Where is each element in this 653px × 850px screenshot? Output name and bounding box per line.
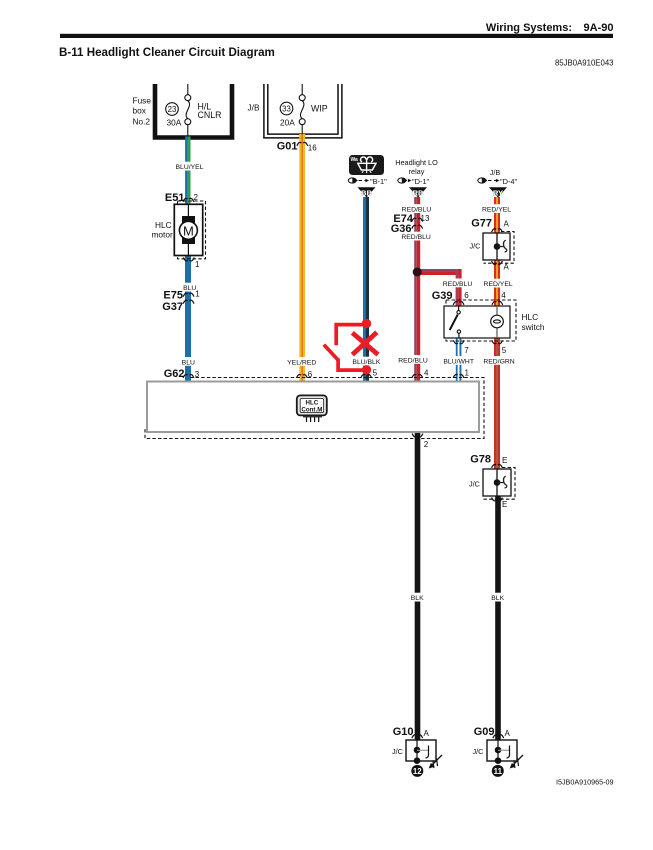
svg-text:BLK: BLK bbox=[491, 595, 504, 602]
svg-text:BLU/WHT: BLU/WHT bbox=[443, 358, 474, 365]
svg-text:"D-4": "D-4" bbox=[500, 177, 518, 186]
svg-text:6: 6 bbox=[308, 370, 313, 379]
svg-text:20A: 20A bbox=[280, 118, 295, 128]
svg-text:33: 33 bbox=[282, 104, 291, 113]
svg-text:J/C: J/C bbox=[469, 479, 480, 488]
svg-text:RED/BLU: RED/BLU bbox=[398, 357, 428, 364]
svg-text:relay: relay bbox=[409, 167, 425, 176]
svg-text:G77: G77 bbox=[471, 217, 492, 229]
svg-text:3: 3 bbox=[195, 370, 200, 379]
svg-text:4: 4 bbox=[424, 368, 429, 377]
svg-text:9A-90: 9A-90 bbox=[584, 22, 614, 34]
svg-text:G09: G09 bbox=[474, 726, 495, 738]
svg-text:WIP: WIP bbox=[311, 104, 328, 114]
svg-text:7: 7 bbox=[464, 346, 469, 355]
svg-text:16: 16 bbox=[308, 144, 317, 153]
svg-text:A: A bbox=[505, 729, 511, 738]
svg-text:A: A bbox=[504, 262, 510, 271]
svg-text:1: 1 bbox=[465, 368, 470, 377]
svg-text:BLU/BLK: BLU/BLK bbox=[352, 359, 380, 366]
svg-text:Wiring Systems:: Wiring Systems: bbox=[486, 22, 572, 34]
svg-text:30A: 30A bbox=[167, 118, 182, 128]
svg-text:BLU/YEL: BLU/YEL bbox=[176, 164, 204, 171]
svg-text:12: 12 bbox=[413, 767, 422, 776]
svg-text:HLC: HLC bbox=[155, 220, 172, 230]
svg-text:E51: E51 bbox=[165, 192, 185, 204]
svg-text:1: 1 bbox=[195, 289, 200, 298]
svg-text:RED/YEL: RED/YEL bbox=[484, 281, 513, 288]
svg-text:J/C: J/C bbox=[473, 747, 484, 756]
svg-text:E75: E75 bbox=[163, 290, 183, 302]
svg-text:RY: RY bbox=[493, 189, 503, 198]
svg-text:BLK: BLK bbox=[411, 595, 424, 602]
svg-text:BLU: BLU bbox=[182, 359, 195, 366]
svg-text:BB: BB bbox=[361, 189, 372, 198]
svg-text:5: 5 bbox=[502, 346, 507, 355]
svg-text:1: 1 bbox=[195, 260, 200, 269]
svg-text:Wa: Wa bbox=[351, 157, 359, 163]
svg-text:G78: G78 bbox=[470, 453, 491, 465]
svg-text:G01: G01 bbox=[277, 141, 298, 153]
svg-text:4: 4 bbox=[501, 291, 506, 300]
svg-text:6: 6 bbox=[464, 291, 469, 300]
svg-text:G36: G36 bbox=[391, 223, 412, 235]
svg-text:Cont.M: Cont.M bbox=[301, 406, 322, 413]
svg-text:HLC: HLC bbox=[522, 312, 539, 322]
svg-text:2: 2 bbox=[424, 440, 429, 449]
svg-text:YEL/RED: YEL/RED bbox=[287, 359, 316, 366]
svg-text:RED/GRN: RED/GRN bbox=[483, 358, 514, 365]
svg-text:13: 13 bbox=[421, 214, 430, 223]
svg-text:Fuse: Fuse bbox=[133, 96, 152, 106]
svg-text:J/C: J/C bbox=[470, 242, 481, 251]
svg-text:box: box bbox=[133, 106, 147, 116]
svg-text:J/C: J/C bbox=[392, 747, 403, 756]
svg-text:E: E bbox=[502, 456, 507, 465]
svg-text:A: A bbox=[504, 219, 510, 228]
svg-text:"D-1": "D-1" bbox=[412, 177, 430, 186]
svg-text:G10: G10 bbox=[393, 726, 414, 738]
svg-text:B-11 Headlight Cleaner Circuit: B-11 Headlight Cleaner Circuit Diagram bbox=[59, 46, 275, 59]
svg-text:11: 11 bbox=[494, 767, 503, 776]
svg-text:G37: G37 bbox=[162, 301, 183, 313]
svg-text:J/B: J/B bbox=[248, 103, 260, 113]
svg-text:CNLR: CNLR bbox=[198, 110, 222, 120]
svg-text:E: E bbox=[502, 500, 507, 509]
svg-text:I5JB0A910965-09: I5JB0A910965-09 bbox=[556, 778, 614, 787]
svg-text:motor: motor bbox=[152, 230, 173, 240]
svg-text:RB: RB bbox=[413, 189, 424, 198]
svg-text:switch: switch bbox=[522, 322, 545, 332]
svg-text:A: A bbox=[424, 729, 430, 738]
svg-text:"B-1": "B-1" bbox=[370, 177, 387, 186]
svg-text:Headlight LO: Headlight LO bbox=[395, 158, 438, 167]
svg-text:J/B: J/B bbox=[490, 168, 501, 177]
svg-text:85JB0A910E043: 85JB0A910E043 bbox=[555, 59, 614, 68]
svg-text:23: 23 bbox=[168, 105, 177, 114]
svg-text:RED/YEL: RED/YEL bbox=[482, 207, 511, 214]
svg-text:M: M bbox=[183, 223, 194, 238]
svg-text:RED/BLU: RED/BLU bbox=[443, 281, 473, 288]
svg-text:5: 5 bbox=[373, 368, 378, 377]
svg-text:No.2: No.2 bbox=[133, 117, 151, 127]
svg-text:G62: G62 bbox=[164, 368, 185, 380]
